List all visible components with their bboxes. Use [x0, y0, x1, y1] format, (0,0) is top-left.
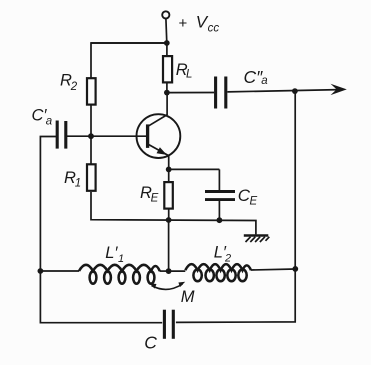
- svg-text:L: L: [186, 68, 192, 80]
- svg-text:L′: L′: [105, 244, 118, 262]
- svg-text:E: E: [250, 195, 258, 207]
- svg-text:2: 2: [70, 81, 78, 93]
- svg-text:1: 1: [118, 253, 124, 265]
- svg-text:C″: C″: [244, 67, 264, 87]
- svg-text:1: 1: [75, 177, 81, 189]
- svg-text:M: M: [181, 288, 195, 306]
- svg-text:a: a: [261, 75, 267, 87]
- svg-text:2: 2: [224, 252, 231, 264]
- svg-text:+: +: [179, 15, 188, 32]
- svg-text:C: C: [144, 332, 157, 352]
- svg-text:a: a: [46, 116, 52, 128]
- svg-text:cc: cc: [208, 22, 220, 34]
- svg-text:E: E: [151, 192, 159, 204]
